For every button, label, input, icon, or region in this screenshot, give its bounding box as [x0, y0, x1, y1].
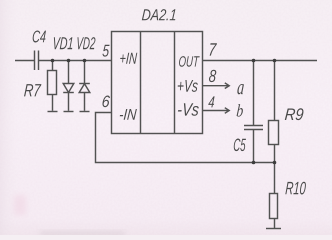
junction R9/R10 node [273, 161, 277, 165]
diode VD2 [79, 83, 90, 85]
wire pin 8 arrow [203, 85, 229, 87]
wire input right segment [39, 60, 112, 62]
junction VD2 top node [83, 59, 87, 63]
wire R10 bottom [274, 219, 276, 229]
wire VD1 top [68, 61, 70, 84]
wire pin 6 to feedback [96, 113, 275, 163]
junction VD1 top node [67, 59, 71, 63]
label -IN [120, 109, 137, 120]
pin 7 [210, 43, 217, 55]
wire VD2 bottom [84, 93, 86, 111]
terminal VD1 [64, 111, 74, 113]
wire VD1 bottom [68, 93, 70, 111]
junction R7 top node [51, 59, 55, 63]
label +IN [120, 53, 137, 64]
label VD2 [78, 37, 96, 49]
label OUT [179, 56, 200, 67]
label DA2.1 [142, 9, 176, 20]
wire R9 branch top [274, 61, 276, 121]
capacitor C4 [34, 51, 36, 71]
op-amp DA2.1 left divider [140, 32, 142, 134]
wire R9 bottom [274, 145, 276, 163]
pin 4 [208, 96, 214, 107]
label VD1 [54, 37, 73, 49]
scan artifact streak [14, 195, 26, 215]
resistor R10 [270, 194, 278, 219]
label b [237, 104, 243, 116]
pin 8 [209, 70, 216, 82]
terminal R10 [266, 228, 281, 230]
pin 5 [102, 45, 109, 57]
label a [237, 84, 244, 94]
wire R7 bottom [52, 95, 54, 111]
wire R10 top [274, 163, 276, 194]
pin 6 [102, 96, 110, 108]
wire pin 4 arrow [203, 110, 230, 112]
label R7 [24, 84, 41, 96]
label C5 [234, 139, 246, 152]
junction R9 top node [273, 59, 277, 63]
junction C5 bottom node [252, 161, 256, 165]
label R9 [285, 108, 304, 120]
terminal R7 [48, 111, 58, 113]
junction C5 top node [252, 59, 256, 63]
wire input left segment [15, 60, 34, 62]
label +Vs [178, 80, 198, 92]
wire VD2 top [84, 61, 86, 84]
op-amp DA2.1 body [112, 32, 203, 134]
wire pin 7 output [203, 60, 318, 62]
resistor R9 [269, 121, 279, 145]
label -Vs [178, 103, 199, 115]
wire C5 branch top [253, 61, 255, 126]
label C4 [33, 30, 46, 42]
resistor R7 [48, 71, 57, 95]
scan artifact bottom smudge [40, 232, 125, 237]
op-amp DA2.1 right divider [174, 32, 176, 134]
label R10 [285, 182, 306, 195]
diode VD1 [63, 84, 74, 93]
terminal VD2 [80, 111, 90, 113]
wire C5 branch bottom [253, 130, 255, 163]
wire R7 drop [52, 61, 54, 71]
capacitor C5 [244, 125, 263, 127]
